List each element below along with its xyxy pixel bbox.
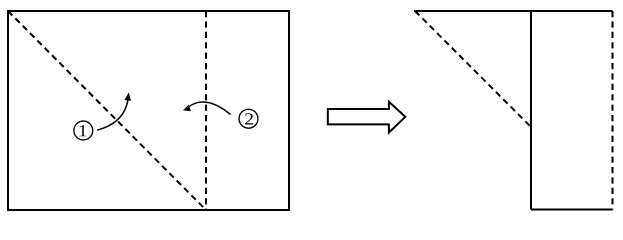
fold line 2: dashed vertical crease [205, 11, 207, 210]
arrowhead of fold arrow 2 [183, 105, 191, 111]
big transform arrow between figures [328, 102, 406, 133]
folded result: dashed diagonal edge of flap [415, 11, 531, 127]
folded result: top edge [414, 10, 613, 12]
step number 2 [245, 113, 253, 124]
step number 1 [80, 125, 86, 136]
step marker circle 2 [239, 109, 258, 128]
fold arrow 1 (curved, pointing up across diagonal) [97, 100, 128, 130]
folded result: vertical folded edge [530, 10, 532, 210]
fold line 1: dashed diagonal crease [8, 11, 206, 210]
fold arrow 2 (curved, pointing left across vertical crease) [189, 102, 231, 115]
folded result: bottom edge [531, 209, 613, 211]
unfolded paper rectangle [8, 11, 289, 210]
step marker circle 1 [74, 121, 93, 140]
arrowhead of fold arrow 1 [124, 93, 131, 101]
folded result: dashed right hidden edge [612, 11, 614, 210]
